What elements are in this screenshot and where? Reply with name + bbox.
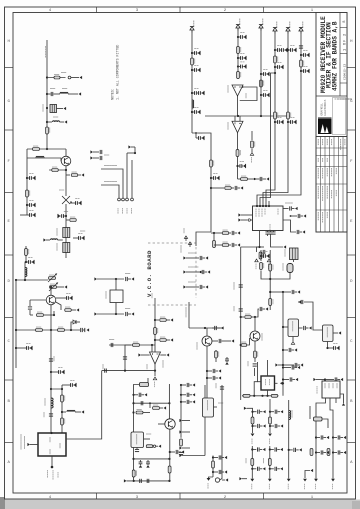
- wire U10 pins down: [316, 398, 336, 432]
- capacitor C76 gnd: [332, 435, 346, 439]
- capacitor TP1: [234, 306, 243, 311]
- resistor R60: [214, 242, 240, 247]
- wire vbus A branch: [260, 72, 276, 206]
- resistor R35: [240, 307, 269, 319]
- capacitor C66 gnd: [251, 410, 265, 414]
- capacitor C53: [141, 401, 143, 405]
- resistor R20: [210, 160, 214, 167]
- wire vertical 181: [180, 385, 182, 438]
- logo block divider: [316, 136, 347, 138]
- resistor R26: [260, 77, 264, 116]
- op-amp U1B: [228, 121, 243, 133]
- resistor R56: [260, 250, 271, 279]
- ground G1: [207, 477, 213, 489]
- capacitor C36: [299, 46, 303, 48]
- wire U1A output: [237, 96, 239, 116]
- wire conn feed 1: [101, 166, 123, 199]
- mixer U4 bottom pins: [260, 231, 276, 248]
- capacitor C7 gnd: [25, 257, 34, 264]
- capacitor C80 gnd: [195, 132, 204, 140]
- resistor R41 top: [134, 378, 149, 395]
- connector P2 labels: [118, 208, 132, 214]
- wire rail 379 left: [282, 377, 298, 381]
- wire U2 right pin: [66, 371, 102, 439]
- wire U7 right pin: [275, 382, 285, 385]
- capacitor C14: [44, 412, 53, 417]
- node J1 input net label: [45, 46, 47, 58]
- capacitor C27 gnd: [237, 62, 246, 69]
- title block outline: [316, 13, 347, 233]
- page bottom edge shadow: [0, 497, 360, 509]
- wire osc out: [50, 330, 52, 433]
- revision table outline: [316, 137, 347, 233]
- capacitor C26 gnd: [237, 53, 246, 60]
- resistor R39: [243, 394, 250, 397]
- wire Q4 emitter: [206, 346, 208, 403]
- title block title text line 3: [331, 21, 338, 91]
- resistor R44: [146, 445, 161, 448]
- wire right bus 270: [269, 250, 271, 306]
- wire U1B output: [237, 133, 239, 179]
- title block sheet cell lines: [340, 28, 347, 84]
- resistor R38: [254, 341, 258, 376]
- resistor R6: [66, 172, 84, 177]
- IC U10: [317, 381, 340, 398]
- capacitor C22 gnd: [191, 88, 204, 95]
- resistor R1: [54, 75, 60, 79]
- capacitor C11 gnd: [15, 343, 32, 350]
- company logo: [318, 118, 332, 135]
- capacitor C42 gnd: [328, 343, 340, 350]
- regulator U5: [288, 319, 299, 337]
- wire U4 right pin 2: [283, 220, 305, 234]
- mixer U4 top pins: [256, 201, 270, 207]
- connector P2 pins: [118, 198, 134, 201]
- resistor R14: [61, 418, 65, 425]
- wire vbus B: [263, 31, 288, 206]
- inductor L4 input: [43, 238, 62, 241]
- wire Q1 emitter: [65, 166, 67, 196]
- wire U3 left pin: [138, 353, 149, 356]
- svg-text:V.C.O. BOARD: V.C.O. BOARD: [146, 250, 153, 297]
- capacitor C71 gnd: [251, 467, 265, 471]
- notes text line2: [116, 45, 120, 100]
- crystal filter X2: [57, 243, 70, 253]
- wire U3 plus input: [151, 344, 153, 352]
- resistor R24 gnd leg: [250, 131, 254, 163]
- inductor L3: [36, 156, 44, 158]
- wire rail 365: [275, 363, 303, 367]
- wire U3 right pin: [160, 353, 169, 356]
- capacitor C64 gnd: [212, 455, 227, 459]
- border zone ticks vertical: [5, 68, 356, 443]
- capacitor C3 gnd: [26, 200, 35, 207]
- wire C16 branch: [125, 345, 131, 370]
- capacitor C6 gnd: [73, 231, 85, 240]
- capacitor C15 gnd: [61, 380, 76, 390]
- capacitor C40: [283, 263, 293, 273]
- capacitor C23 gnd: [191, 107, 200, 114]
- capacitor C12: [49, 356, 54, 361]
- wire Q3 base: [30, 300, 46, 306]
- connector stub AT3: [183, 282, 208, 289]
- crystal filter X1: [57, 228, 70, 238]
- wire VCO vertical: [154, 305, 156, 352]
- wire U1B inputs: [235, 116, 240, 121]
- capacitor C72 gnd: [269, 447, 283, 451]
- capacitor C75 gnd: [315, 435, 329, 439]
- wire U1A feedback: [240, 86, 257, 100]
- inductor L9: [289, 410, 292, 420]
- mixer U4 body: [253, 206, 284, 231]
- wire vco control: [186, 302, 189, 328]
- capacitor C44 gnd: [212, 326, 224, 330]
- wire gnd L: [303, 469, 313, 489]
- wire conn stubs left: [179, 419, 205, 457]
- inductor L8: [192, 100, 194, 108]
- resistor R2: [46, 127, 50, 134]
- capacitor C34 gnd: [287, 45, 296, 52]
- capacitor C74 gnd: [288, 448, 302, 452]
- IF amp U8: [131, 432, 144, 448]
- node junction 2: [46, 93, 48, 95]
- revision table columns: [321, 137, 344, 233]
- capacitor C29 gnd: [260, 69, 269, 76]
- capacitor C65 gnd: [212, 470, 227, 474]
- wire conn feed 3: [127, 152, 136, 198]
- company name text: [321, 99, 327, 115]
- wire VCC1 bus: [191, 30, 193, 133]
- capacitor C50 gnd: [282, 365, 300, 369]
- capacitor C17: [103, 364, 106, 373]
- capacitor C25 gnd: [237, 32, 246, 39]
- wire U4 LO input left: [238, 213, 252, 216]
- wire Y1 bottom: [115, 303, 117, 316]
- wire rail 481: [124, 479, 171, 482]
- dashed board outline bottom: [148, 304, 352, 306]
- transistor Q6: [165, 419, 175, 429]
- capacitor C51: [0, 0, 1, 1]
- pin circle TP: [215, 477, 228, 482]
- notes text line1: [111, 88, 115, 100]
- wire to pin P1: [47, 77, 66, 79]
- wire reg rail: [269, 273, 290, 281]
- wire U2 ground pin: [48, 456, 59, 480]
- wire IF vertical 169: [168, 384, 170, 419]
- title block sheet text: [343, 33, 347, 51]
- wire center bus 240: [240, 247, 242, 400]
- capacitor C78 gnd: [332, 450, 346, 454]
- wire U10 right pin: [340, 394, 345, 406]
- capacitor C43 gnd: [282, 348, 297, 352]
- wire U9 top: [204, 385, 206, 398]
- capacitor C58: [147, 479, 149, 483]
- wire U5 out: [299, 326, 312, 330]
- resistor R3: [33, 146, 40, 150]
- title block title text line 2: [326, 22, 333, 88]
- title block drawing number: [343, 64, 346, 80]
- wire bottom rail Y1: [94, 309, 134, 317]
- power flag VCC3: [259, 19, 263, 31]
- capacitor C20 gnd: [191, 48, 200, 55]
- capacitor C21 gnd: [191, 65, 200, 72]
- resistor R30: [300, 60, 304, 67]
- capacitor C30 gnd: [260, 90, 269, 97]
- capacitor C62 gnd: [180, 400, 195, 404]
- resistor R55: [327, 449, 330, 456]
- capacitor C59 gnd: [169, 450, 184, 454]
- wire U6 in: [304, 302, 323, 330]
- wire U5 gnd: [291, 337, 294, 345]
- resistor R43: [132, 410, 150, 414]
- wire U4 IF input left: [238, 218, 252, 221]
- resistor R37: [241, 338, 250, 346]
- resistor R12: [58, 327, 65, 331]
- capacitor C49: [248, 361, 257, 366]
- resistor R57: [210, 185, 243, 190]
- wire mixer drive: [238, 178, 254, 180]
- svg-text:B: B: [342, 21, 346, 23]
- node junction 1: [46, 76, 48, 78]
- wire U7 top pin: [267, 360, 269, 376]
- wire U8 right pin: [144, 434, 152, 439]
- wire cluster A feed: [244, 407, 253, 412]
- capacitor C60 gnd: [180, 383, 195, 387]
- wire osc chain: [25, 246, 26, 280]
- resistor R50: [269, 417, 272, 424]
- wire rail 403: [132, 402, 170, 404]
- wire left rail: [15, 280, 17, 368]
- transistor Q5: [250, 317, 262, 341]
- wire collector rail: [27, 148, 66, 150]
- capacitor C46 gnd dn: [225, 357, 229, 365]
- resistor R58: [213, 232, 216, 248]
- wire bias rail: [205, 115, 290, 117]
- resistor R31: [259, 252, 263, 259]
- capacitor C45 gnd: [212, 339, 234, 343]
- resistor R28: [274, 112, 278, 119]
- resistor R9: [30, 311, 55, 316]
- wire U6 out: [333, 331, 341, 334]
- diode D1: [71, 320, 80, 330]
- wire base feed: [27, 158, 62, 161]
- company address text: [333, 98, 353, 135]
- capacitor C47 gnd: [206, 369, 221, 373]
- resistor R36: [240, 344, 242, 346]
- wire IF vertical 133: [133, 395, 135, 481]
- capacitor C55 gnd dn: [139, 460, 143, 468]
- cluster D wire: [268, 446, 272, 489]
- regulator U6: [323, 325, 334, 342]
- node mixer port: [253, 177, 269, 181]
- resistor R23: [236, 150, 240, 157]
- cluster B wire: [268, 399, 272, 444]
- trimmer RV1: [48, 274, 57, 283]
- resistor R7: [66, 217, 76, 221]
- op-amp U3: [147, 352, 163, 369]
- capacitor TP2: [234, 282, 243, 290]
- wire rail 379 right: [313, 377, 343, 381]
- dashed board outline right: [195, 247, 197, 298]
- resistor R10: [56, 302, 79, 312]
- terminator caps: [255, 234, 271, 269]
- capacitor C32 gnd: [274, 62, 283, 69]
- wire top rail Y1: [94, 274, 134, 282]
- power flag VCC4: [273, 22, 277, 34]
- title block title divider: [316, 95, 347, 97]
- resistor R33: [269, 299, 273, 311]
- wire vertical 283: [282, 292, 284, 396]
- wire conn feed top: [128, 145, 135, 153]
- resistor R46: [168, 466, 171, 473]
- capacitor C18 stub: [90, 150, 101, 154]
- title block rev letter: [342, 21, 346, 23]
- wire mid rail 292: [269, 290, 300, 294]
- wire U9 right pin: [214, 403, 224, 407]
- power flag VCC6: [299, 22, 303, 34]
- resistor R34: [215, 350, 219, 362]
- capacitor C39 gnd: [290, 214, 307, 218]
- wire U9 bottom: [204, 417, 206, 456]
- wire U7 left pin: [254, 362, 261, 396]
- pin P1 circle: [61, 73, 82, 80]
- wire Q6 emitter: [169, 429, 171, 481]
- power flag K1: [184, 228, 188, 241]
- inductor L7: [61, 410, 84, 413]
- resistor R25: [241, 176, 248, 180]
- cluster C wire: [250, 446, 254, 489]
- wire mid rail: [15, 329, 80, 331]
- wire VCO bottom rail: [102, 370, 156, 372]
- power flag K2: [181, 242, 192, 253]
- svg-text:ELECTRONICS: ELECTRONICS: [324, 99, 327, 115]
- wire right v333: [331, 432, 335, 489]
- capacitor C57: [140, 479, 142, 483]
- revision table rows: [316, 148, 347, 210]
- resistor R5: [49, 167, 67, 171]
- IC U9: [203, 398, 214, 417]
- capacitor C19 stub: [90, 155, 109, 160]
- capacitor C2 gnd: [26, 173, 35, 180]
- connector stub AT2: [183, 267, 210, 274]
- resistor R11: [36, 327, 43, 331]
- resistor R40: [271, 394, 278, 397]
- capacitor C1: [47, 89, 55, 97]
- capacitor C69 gnd: [269, 424, 283, 428]
- svg-text:1. NOT ALL COMPONENTS FITTED: 1. NOT ALL COMPONENTS FITTED: [116, 45, 120, 100]
- trimmer RV2: [49, 283, 67, 292]
- wire stub border: [20, 210, 35, 217]
- cluster R48: [212, 456, 215, 478]
- wire conn feed 2: [101, 182, 119, 199]
- resistor R27: [274, 56, 278, 63]
- power flag VCC1: [190, 21, 194, 33]
- resistor R45: [132, 470, 136, 477]
- node U2 top pin: [50, 432, 52, 434]
- capacitor C8: [28, 307, 32, 315]
- resistor R59: [211, 230, 240, 235]
- wire rail 459: [132, 458, 170, 460]
- resistor R32: [269, 264, 273, 271]
- resistor R18: [133, 342, 140, 346]
- capacitor C77 gnd: [315, 450, 329, 454]
- title block divider col: [339, 13, 341, 97]
- crystal filter FL1: [285, 248, 298, 260]
- transformer T3: [43, 104, 66, 113]
- capacitor C70 gnd: [251, 447, 265, 451]
- wire Y1 top: [115, 278, 117, 290]
- capacitor C63: [179, 452, 183, 454]
- capacitor C73 gnd: [269, 467, 283, 471]
- inductor L5: [25, 268, 27, 277]
- resistor R21: [237, 47, 241, 54]
- wire osc rail: [15, 279, 48, 281]
- resistor R42: [149, 402, 166, 409]
- wire input vertical bus: [46, 40, 48, 149]
- op-amp U1A: [228, 85, 246, 98]
- wire bottom rail 396: [242, 395, 279, 397]
- svg-text:C50015-13: C50015-13: [343, 64, 346, 80]
- wire emitter Q3: [50, 305, 52, 330]
- wire rail 328: [189, 327, 223, 329]
- capacitor C24 gnd: [210, 173, 219, 180]
- wire vbus C: [257, 31, 301, 206]
- wire conn feed 4: [131, 160, 133, 198]
- wire right v316: [314, 432, 318, 489]
- capacitor C35 gnd: [287, 117, 296, 124]
- power flag VCC5: [286, 22, 290, 34]
- wire U2 left pin: [21, 434, 38, 450]
- border zone ticks horizontal: [97, 7, 264, 499]
- cluster A wire: [251, 412, 255, 444]
- capacitor C31 gnd: [274, 45, 287, 52]
- wire LO term: [241, 246, 264, 252]
- svg-text:NOTES:: NOTES:: [111, 88, 115, 100]
- transistor Q1: [61, 149, 71, 166]
- wire U4 right pin 1: [283, 203, 298, 211]
- wire x261 upper: [260, 28, 262, 77]
- resistor R8: [25, 249, 29, 256]
- wire VCO supply: [152, 293, 155, 305]
- revision table cell text: [318, 139, 345, 223]
- power flag VCC2: [236, 19, 240, 31]
- connector stub AT1: [183, 253, 208, 260]
- title block title text line 1: [320, 16, 327, 93]
- wire branch buffer: [50, 388, 62, 433]
- resistor R16: [154, 328, 158, 335]
- capacitor C41 gnd: [298, 300, 303, 304]
- capacitor C37 gnd: [300, 50, 309, 57]
- capacitor C54: [135, 448, 139, 452]
- inductor L1: [54, 89, 82, 96]
- resistor R47: [180, 439, 183, 446]
- wire VCO out down: [153, 370, 156, 387]
- capacitor C79 gnd: [260, 251, 269, 258]
- resistor R4: [26, 190, 30, 197]
- capacitor C56 gnd dn: [146, 460, 150, 468]
- crystal oscillator module U2: [38, 433, 66, 456]
- capacitor C13 gnd: [50, 367, 64, 374]
- wire vbus A: [266, 31, 275, 206]
- wire Q2 down: [65, 204, 67, 258]
- capacitor C61 gnd: [180, 393, 195, 397]
- resistor R53: [310, 406, 328, 428]
- capacitor C10 gnd: [81, 328, 89, 332]
- wire U3 feed: [109, 340, 155, 348]
- wire U6 gnd down: [326, 342, 328, 350]
- resistor R54: [310, 449, 313, 456]
- resistor R29: [287, 112, 291, 119]
